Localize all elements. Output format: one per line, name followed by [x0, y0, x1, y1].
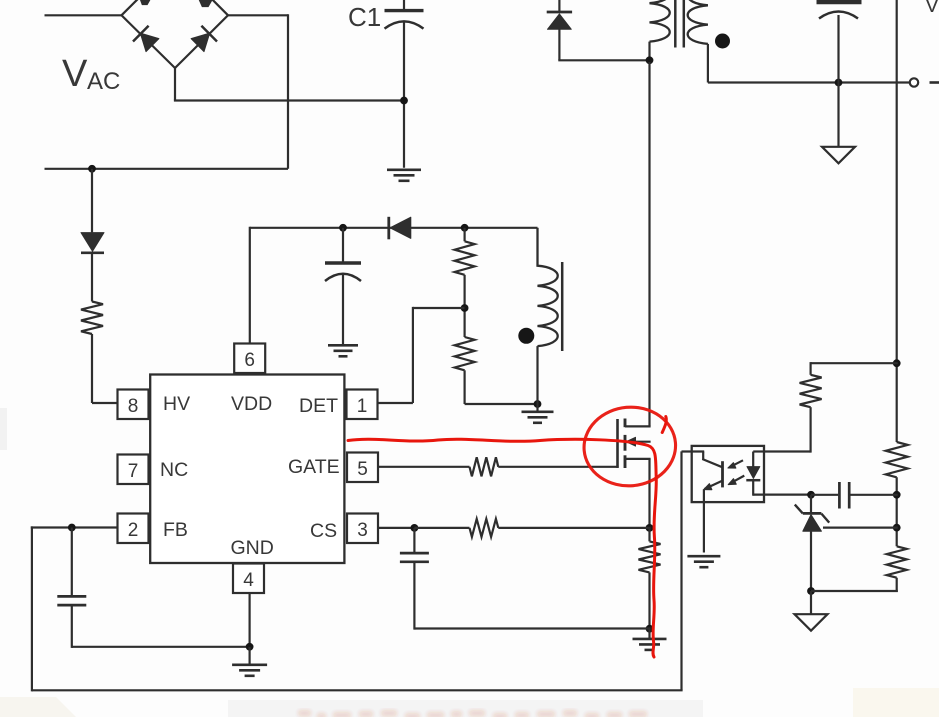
wire CS cap bottom to sense ground [414, 627, 650, 629]
wire bridge right vertex to right drop [228, 14, 288, 169]
resistor R_startup [81, 302, 103, 335]
IC pin labels [160, 393, 340, 559]
svg-text:FB: FB [163, 519, 188, 541]
node VDD cap junction [339, 224, 347, 232]
svg-text:VDD: VDD [231, 393, 272, 415]
node zener-anode junction [807, 587, 815, 595]
bridge diode D_tr remnant (clipped at top) [199, 0, 212, 7]
resistor R_det_upper [455, 228, 475, 337]
red annotation ellipse around MOSFET [581, 403, 679, 489]
wire opto emitter to ground [703, 489, 705, 552]
transistor Q1 (power MOSFET) [618, 62, 651, 529]
node fb divider dot A [893, 491, 901, 499]
node sense-ground junction [646, 625, 654, 633]
wire divider bottom to aux ground [465, 403, 538, 405]
resistor R_sense [639, 528, 661, 630]
wire bridge bottom vertex to C1 rail [174, 68, 404, 101]
wire AC line 1 (top, to bridge left vertex) [45, 14, 122, 16]
label minus at output [930, 81, 939, 84]
wire gate resistor to gate [498, 466, 618, 468]
svg-text:3: 3 [357, 520, 368, 541]
core line (aux winding) [561, 262, 564, 351]
node GND junction [246, 643, 254, 651]
resistor R_fb_upper [886, 442, 908, 477]
node C1 junction dot [400, 97, 408, 105]
node opto-bias tap dot [893, 359, 901, 367]
opto transistor (base bar, collector, emitter) [682, 452, 723, 490]
node AC2 junction dot [88, 165, 96, 173]
resistor R_cs [470, 519, 499, 537]
ground (IC GND) [232, 647, 267, 676]
svg-text:1: 1 [357, 396, 368, 417]
red blurred caption remnant (bottom edge) [298, 710, 647, 717]
node CS junction [411, 524, 419, 532]
node aux phase dot [518, 328, 534, 344]
svg-text:7: 7 [128, 461, 139, 482]
label C1 [348, 2, 381, 32]
resistor R_bias [800, 375, 822, 407]
wire AC line 2 (lower horizontal) [45, 168, 289, 170]
ground (opto emitter) [687, 556, 720, 567]
wire gate from pin 5 [378, 466, 470, 468]
transformer T1 core lines [675, 0, 684, 48]
svg-text:NC: NC [160, 459, 188, 481]
wire CS node to resistor [414, 527, 469, 529]
node aux-ground junction [534, 400, 542, 408]
red annotation squiggle line (GATE trace to sense ground) [348, 439, 656, 657]
opto LED (pointing down) [746, 452, 760, 496]
pin 6 box [234, 344, 265, 374]
node FB junction [68, 524, 76, 532]
capacitor C_fb [57, 528, 86, 648]
node fb divider dot B [893, 524, 901, 532]
diode D_snub (pointing up, top of primary) [547, 0, 650, 60]
transformer T1 primary winding [650, 0, 670, 61]
wire pin 4 (GND) down [249, 593, 251, 648]
inductor L_aux (auxiliary winding) [538, 228, 558, 404]
label V_AC [62, 53, 120, 95]
wire opto LED anode lead inside box [753, 450, 764, 452]
resistor R_det_lower [455, 337, 475, 404]
ground (zener, open triangle) [795, 591, 828, 631]
resistor R_gate [470, 457, 499, 476]
wire pin 3 to CS node [378, 527, 416, 529]
svg-text:HV: HV [163, 393, 190, 415]
decorative patch left-edge [0, 408, 7, 450]
wire opto LED cathode to feedback node [753, 494, 812, 496]
pin 5 box [347, 453, 378, 483]
svg-text:GND: GND [231, 537, 274, 559]
svg-text:C1: C1 [348, 2, 381, 32]
pin 7 box [118, 455, 149, 485]
ground (aux winding) [522, 404, 554, 423]
node primary-snubber junction dot [646, 56, 654, 64]
node secondary phase dot [715, 34, 730, 49]
pin 2 box [118, 514, 149, 544]
wire startup diode to resistor [91, 254, 93, 302]
wire zener ref to divider mid [823, 526, 898, 528]
svg-text:CS: CS [310, 520, 337, 542]
svg-text:4: 4 [243, 570, 254, 591]
svg-text:V: V [62, 53, 88, 95]
output terminal circle [910, 78, 918, 86]
pin 4 box [233, 564, 264, 594]
node source-CS junction [646, 524, 654, 532]
ground (C_VDD) [328, 345, 358, 356]
ground (C1) [387, 170, 421, 181]
node output cap junction [835, 79, 843, 87]
svg-text:6: 6 [244, 350, 255, 371]
svg-text:2: 2 [128, 520, 139, 541]
wire FB cap bottom to GND node [72, 646, 251, 648]
zener diode ZD1 (shunt regulator) [795, 495, 829, 592]
svg-text:DET: DET [299, 395, 338, 417]
wire startup resistor to pin 8 [92, 334, 118, 403]
diode D_startup (pointing down) [81, 233, 104, 253]
bridge diode D_tl remnant (clipped at top) [141, 0, 150, 5]
bridge diode D_bl (lower-left arm) [133, 26, 159, 52]
opto light arrows [728, 460, 744, 484]
ground (output, open triangle) [822, 147, 855, 164]
transformer T1 secondary winding [688, 0, 708, 83]
capacitor C_cs [400, 528, 429, 630]
label V (top right, clipped) [925, 0, 939, 17]
op-amp / controller IC U1 body [150, 375, 344, 564]
decorative patch bottom-right [853, 688, 939, 717]
wire pin 6 up and VDD top rail [250, 227, 538, 344]
capacitor C_VDD (polarized) [325, 228, 361, 344]
svg-text:V: V [925, 0, 939, 17]
ground (sense resistor) [633, 629, 667, 650]
svg-text:5: 5 [357, 459, 368, 480]
node divider top junction [461, 224, 469, 232]
pin 3 box [347, 514, 378, 544]
wire secondary output rail [708, 81, 910, 83]
bridge rectifier BR1 diamond outline [122, 0, 229, 68]
wire CS resistor to source [498, 527, 650, 529]
wire output right rail [896, 0, 898, 592]
decorative patch bottom-left [0, 697, 76, 717]
wire FB left rail down and bottom feedback run [32, 451, 683, 691]
capacitor C_comp (horizontal) [811, 482, 898, 509]
svg-text:AC: AC [87, 68, 120, 95]
bridge diode D_br (lower-right arm) [191, 26, 217, 52]
capacitor C1 (polarized) [385, 0, 424, 168]
pin 8 box [118, 390, 149, 420]
optocoupler U2 box [692, 446, 764, 502]
decorative patch bottom-center [228, 700, 703, 717]
node opto-cathode junction [807, 491, 815, 499]
capacitor C_out (polarized) [817, 2, 862, 147]
diode D_VDD (pointing left) [389, 217, 411, 240]
wire AC2 down to startup diode [91, 169, 93, 233]
svg-text:GATE: GATE [288, 456, 340, 478]
svg-text:8: 8 [128, 396, 139, 417]
node DET tap junction [461, 304, 469, 312]
wire zener anode to divider bottom [811, 590, 898, 592]
pin 1 box [347, 390, 378, 420]
wire DET tap to pin 1 [378, 307, 465, 403]
resistor R_fb_lower [887, 546, 907, 577]
wire pin 2 (FB) to left rail [31, 526, 118, 528]
wire opto bias from rail [811, 362, 898, 375]
wire bias resistor to opto anode [763, 407, 811, 452]
